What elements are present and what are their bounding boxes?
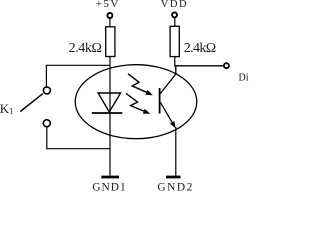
wire node A to switch K1 top contact bbox=[46, 65, 110, 86]
wire +5V terminal to R1 bbox=[109, 18, 111, 27]
resistor R1 bbox=[106, 27, 115, 57]
wire K1 bottom contact to GND1 node bbox=[47, 127, 110, 149]
svg-text:2.4kΩ: 2.4kΩ bbox=[69, 41, 102, 56]
switch K1 lever bbox=[20, 94, 43, 112]
terminal Di bbox=[224, 63, 229, 68]
terminal +5V bbox=[107, 13, 112, 18]
wire R2 bottom to collector node bbox=[174, 57, 176, 67]
phototransistor collector lead bbox=[160, 66, 175, 94]
LED cathode bar bbox=[92, 112, 123, 114]
svg-text:GND1: GND1 bbox=[92, 181, 126, 193]
wire collector node to Di terminal bbox=[175, 65, 223, 67]
svg-text:+5V: +5V bbox=[96, 0, 120, 10]
resistor R2 bbox=[170, 26, 179, 56]
phototransistor emitter arrow bbox=[170, 121, 176, 128]
optocoupler U1 body bbox=[75, 65, 197, 139]
phototransistor emitter lead bbox=[160, 102, 172, 122]
svg-text:VDD: VDD bbox=[161, 0, 188, 10]
ground GND2 bbox=[166, 176, 181, 179]
terminal VDD bbox=[172, 12, 177, 17]
ground GND1 bbox=[101, 176, 119, 179]
svg-text:GND2: GND2 bbox=[157, 181, 193, 193]
wire R1 bottom through LED to GND1 bbox=[109, 57, 111, 176]
svg-text:2.4kΩ: 2.4kΩ bbox=[184, 41, 216, 56]
wire VDD terminal to R2 bbox=[174, 18, 176, 27]
switch K1 top contact bbox=[43, 87, 50, 94]
light arrow 1 bbox=[128, 74, 148, 93]
LED anode triangle bbox=[98, 93, 121, 112]
svg-text:Di: Di bbox=[239, 73, 249, 84]
wire emitter to GND2 bbox=[175, 127, 177, 176]
light arrow 2 bbox=[126, 93, 145, 111]
switch K1 bottom contact bbox=[43, 120, 50, 127]
phototransistor Q1 base bar bbox=[159, 88, 161, 114]
